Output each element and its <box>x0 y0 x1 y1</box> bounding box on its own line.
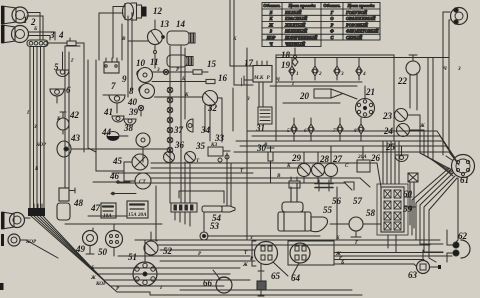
svg-text:9: 9 <box>122 74 127 84</box>
svg-text:29: 29 <box>291 153 302 163</box>
svg-text:З: З <box>249 235 253 241</box>
svg-text:18: 18 <box>281 50 291 60</box>
svg-text:50: 50 <box>98 247 108 257</box>
svg-text:1: 1 <box>23 15 28 25</box>
svg-text:43: 43 <box>70 133 81 143</box>
svg-text:44: 44 <box>101 127 112 137</box>
svg-text:58: 58 <box>366 208 376 218</box>
svg-text:КОР: КОР <box>35 142 47 148</box>
svg-text:ГОЛУБОЙ: ГОЛУБОЙ <box>345 9 368 15</box>
svg-text:КОР: КОР <box>25 239 37 245</box>
svg-text:КРАСНЫЙ: КРАСНЫЙ <box>284 15 308 21</box>
svg-text:К: К <box>232 36 237 42</box>
svg-text:СЕРЫЙ: СЕРЫЙ <box>346 34 363 40</box>
svg-text:41: 41 <box>103 107 113 117</box>
svg-text:К: К <box>184 92 189 98</box>
svg-text:10А: 10А <box>103 213 112 219</box>
svg-text:32: 32 <box>207 103 218 113</box>
svg-text:2: 2 <box>318 71 322 77</box>
svg-text:З: З <box>33 124 37 130</box>
svg-text:К: К <box>335 235 340 241</box>
svg-text:40: 40 <box>127 97 138 107</box>
svg-text:46: 46 <box>109 171 120 181</box>
svg-text:8: 8 <box>129 86 134 96</box>
svg-text:Б: Б <box>33 26 38 32</box>
svg-text:БЕЛЫЙ: БЕЛЫЙ <box>284 9 302 15</box>
svg-text:В: В <box>263 142 268 148</box>
svg-text:17: 17 <box>244 58 254 68</box>
svg-text:13: 13 <box>160 19 170 29</box>
svg-text:35: 35 <box>195 141 206 151</box>
svg-text:38: 38 <box>123 123 134 133</box>
svg-text:15: 15 <box>207 59 217 69</box>
svg-text:ЖЕЛТЫЙ: ЖЕЛТЫЙ <box>284 21 306 27</box>
svg-text:1: 1 <box>296 71 299 77</box>
svg-text:57: 57 <box>353 196 363 206</box>
svg-text:Ж: Ж <box>419 123 425 129</box>
svg-text:49: 49 <box>75 244 86 254</box>
svg-text:ЗЕЛЕНЫЙ: ЗЕЛЕНЫЙ <box>284 28 308 34</box>
svg-text:ОРАНЖЕВЫЙ: ОРАНЖЕВЫЙ <box>346 15 376 21</box>
svg-text:20А: 20А <box>357 154 367 160</box>
svg-text:31: 31 <box>255 123 265 133</box>
svg-text:Цвет провода: Цвет провода <box>347 3 376 8</box>
svg-text:3: 3 <box>49 30 55 40</box>
svg-text:39: 39 <box>128 107 139 117</box>
svg-text:33: 33 <box>214 133 225 143</box>
svg-text:РОЗОВЫЙ: РОЗОВЫЙ <box>346 21 368 27</box>
svg-text:ЧЕРНЫЙ: ЧЕРНЫЙ <box>285 40 306 46</box>
svg-text:19: 19 <box>281 60 291 70</box>
svg-text:61: 61 <box>460 175 469 185</box>
svg-text:54: 54 <box>212 213 222 223</box>
svg-text:42: 42 <box>69 110 80 120</box>
svg-text:Б: Б <box>269 10 273 15</box>
svg-text:62: 62 <box>458 231 468 241</box>
svg-text:52: 52 <box>163 246 173 256</box>
svg-text:37: 37 <box>173 125 184 135</box>
svg-text:59: 59 <box>403 204 413 214</box>
svg-text:Б: Б <box>34 166 39 172</box>
svg-text:12: 12 <box>153 6 163 16</box>
svg-text:Г: Г <box>330 10 334 15</box>
svg-text:3: 3 <box>340 71 344 77</box>
svg-text:Б: Б <box>181 76 186 82</box>
svg-text:51: 51 <box>128 252 137 262</box>
svg-text:56: 56 <box>332 196 342 206</box>
svg-text:З: З <box>246 96 250 102</box>
svg-text:26: 26 <box>370 153 381 163</box>
svg-text:4: 4 <box>58 30 64 40</box>
svg-text:К: К <box>56 116 61 122</box>
svg-text:КОР: КОР <box>266 35 276 40</box>
svg-text:СТ: СТ <box>139 179 146 185</box>
svg-text:Цвет провода: Цвет провода <box>288 3 317 8</box>
svg-text:66: 66 <box>203 278 213 288</box>
svg-text:С: С <box>345 163 349 169</box>
svg-text:ФИОЛЕТОВЫЙ: ФИОЛЕТОВЫЙ <box>346 28 379 34</box>
svg-text:В: В <box>276 173 281 179</box>
svg-text:Б: Б <box>90 265 95 271</box>
svg-text:55: 55 <box>323 205 333 215</box>
svg-text:34: 34 <box>200 125 211 135</box>
svg-text:28: 28 <box>319 154 330 164</box>
svg-text:16: 16 <box>218 73 228 83</box>
svg-text:14: 14 <box>176 19 186 29</box>
svg-text:21: 21 <box>365 87 375 97</box>
svg-text:11: 11 <box>150 57 159 67</box>
svg-text:20: 20 <box>299 91 310 101</box>
svg-text:В: В <box>121 36 126 42</box>
svg-text:27: 27 <box>332 154 343 164</box>
svg-text:КОР: КОР <box>95 281 107 287</box>
svg-text:24: 24 <box>383 126 394 136</box>
svg-text:К: К <box>286 163 291 169</box>
svg-text:Ф: Ф <box>330 29 334 34</box>
svg-text:36: 36 <box>174 140 185 150</box>
svg-text:6: 6 <box>66 85 71 95</box>
svg-text:5: 5 <box>54 62 59 72</box>
svg-text:З: З <box>457 66 461 72</box>
svg-text:48: 48 <box>73 198 84 208</box>
svg-text:Обознач.: Обознач. <box>323 3 340 8</box>
svg-text:25: 25 <box>385 142 396 152</box>
svg-text:63: 63 <box>408 270 418 280</box>
svg-text:Ж: Ж <box>242 262 248 268</box>
svg-text:10: 10 <box>136 58 146 68</box>
svg-text:Обознач.: Обознач. <box>263 3 280 8</box>
svg-text:С: С <box>331 35 334 40</box>
svg-text:23: 23 <box>382 111 393 121</box>
svg-text:М.К: М.К <box>253 75 264 81</box>
svg-text:Р: Р <box>331 22 334 27</box>
svg-text:22: 22 <box>397 76 408 86</box>
svg-text:КОРИЧНЕВЫЙ: КОРИЧНЕВЫЙ <box>284 34 318 40</box>
svg-text:15А 20А: 15А 20А <box>128 212 147 218</box>
svg-text:7: 7 <box>111 81 116 91</box>
svg-text:60: 60 <box>403 189 413 199</box>
svg-text:64: 64 <box>291 273 301 283</box>
svg-text:45: 45 <box>112 156 123 166</box>
svg-text:65: 65 <box>271 271 281 281</box>
svg-text:47: 47 <box>90 203 101 213</box>
svg-text:4: 4 <box>362 71 366 77</box>
svg-text:Б: Б <box>340 260 345 266</box>
svg-text:З: З <box>156 67 160 73</box>
